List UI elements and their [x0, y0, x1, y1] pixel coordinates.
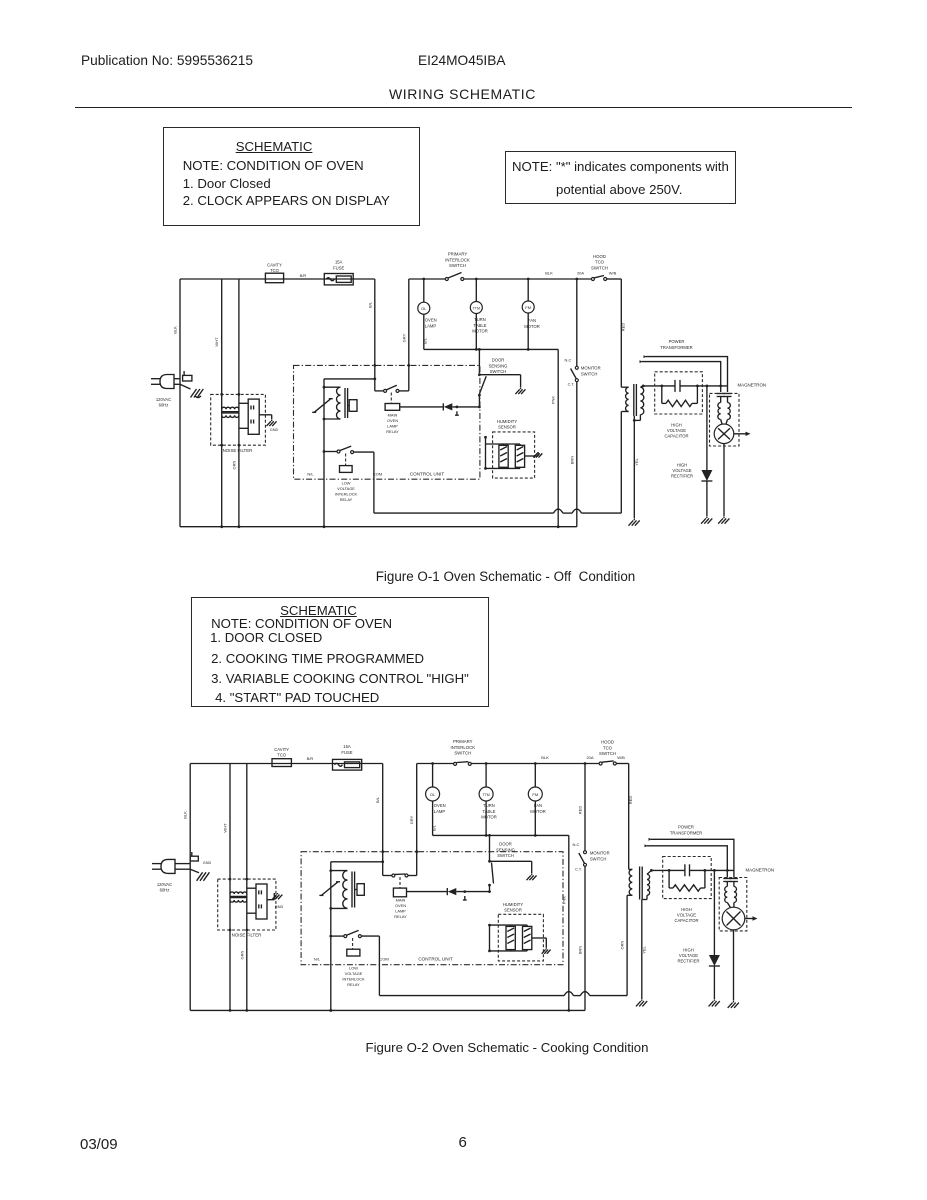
note box 2: components above 250V: [505, 151, 736, 204]
svg-text:TTM: TTM: [482, 793, 489, 797]
svg-text:CAVITY: CAVITY: [274, 747, 289, 752]
svg-text:HIGH: HIGH: [681, 907, 691, 912]
wire door switch down to diode node: [489, 885, 491, 892]
bottom return run upper: [379, 995, 564, 997]
ground: HV transformer chassis: [641, 999, 643, 1001]
svg-text:FM: FM: [532, 792, 538, 797]
svg-text:RED: RED: [578, 806, 583, 815]
oven lamp branch: [432, 764, 434, 788]
power cord plug 120VAC: [161, 859, 175, 873]
wire: top run between primary interlock switch and hood switch: [464, 278, 592, 280]
svg-text:VOLTAGE: VOLTAGE: [677, 913, 696, 918]
HV bus from secondary to magnetron: [651, 869, 685, 871]
interlock relay coil box: [345, 454, 347, 466]
svg-text:OVEN: OVEN: [434, 803, 446, 808]
filament winding lead lower: [640, 360, 644, 363]
wire: D1 to door switch node: [456, 891, 489, 893]
humidity sensor feed wire: [489, 925, 491, 951]
svg-text:BLK: BLK: [183, 811, 188, 819]
wire: primary return to bottom run: [626, 895, 628, 995]
svg-text:RELAY: RELAY: [386, 429, 399, 434]
magnetron filter capacitors: [723, 878, 731, 880]
svg-text:CAVITY: CAVITY: [267, 263, 282, 268]
svg-text:20A: 20A: [586, 755, 593, 760]
svg-text:GRY: GRY: [409, 815, 414, 824]
noise filter box (dashed): [218, 879, 276, 930]
svg-text:DOOR: DOOR: [492, 358, 505, 363]
wire: vertical V4 from fuse run down to lamp relay contact: [374, 279, 376, 391]
turntable motor TTM: [479, 787, 493, 801]
wire FM to bus: [527, 313, 529, 349]
svg-text:INTERLOCK: INTERLOCK: [342, 977, 365, 982]
svg-text:OVEN: OVEN: [395, 903, 406, 908]
ground: power cord: [190, 869, 199, 873]
motor return bus: [433, 834, 569, 836]
wire: AC line top run L1 to relay corner: [180, 278, 375, 280]
svg-text:GRY: GRY: [401, 333, 406, 342]
wire: top run from hood switch to right corner: [607, 278, 622, 280]
svg-text:BRN: BRN: [578, 946, 583, 955]
svg-text:20A: 20A: [577, 271, 584, 276]
svg-text:TCO: TCO: [277, 753, 287, 758]
door sensing switch branch from bus: [478, 349, 480, 373]
svg-text:RELAY: RELAY: [394, 914, 407, 919]
svg-text:SWITCH: SWITCH: [599, 751, 616, 756]
svg-text:GND: GND: [203, 861, 212, 865]
svg-text:YEL: YEL: [641, 945, 646, 953]
cavity TCO: [272, 759, 291, 767]
svg-text:N/L: N/L: [314, 956, 321, 961]
svg-text:C.T.: C.T.: [568, 383, 575, 387]
footer page number: [459, 1134, 467, 1151]
magnetron shield box (dashed): [719, 878, 747, 931]
svg-text:PNK: PNK: [551, 396, 556, 405]
svg-text:TRANSFORMER: TRANSFORMER: [670, 831, 702, 836]
ground: HV transformer chassis: [633, 519, 635, 521]
svg-text:MAIN: MAIN: [388, 413, 398, 418]
svg-text:15A: 15A: [335, 260, 343, 265]
wire: magnetron cathode to ground: [723, 444, 725, 517]
note box 3: schematic condition of oven (cooking): [191, 597, 489, 707]
svg-text:SWITCH: SWITCH: [591, 265, 608, 270]
svg-text:RECTIFIER: RECTIFIER: [677, 959, 699, 964]
svg-text:CONTROL UNIT: CONTROL UNIT: [418, 956, 452, 961]
svg-text:15A: 15A: [343, 744, 351, 749]
svg-text:BLK: BLK: [173, 326, 178, 334]
svg-text:TCO: TCO: [603, 745, 613, 750]
svg-text:OVEN: OVEN: [425, 318, 437, 323]
wire: interlock relay to bottom run: [373, 452, 375, 513]
wire: core rail to chassis: [641, 900, 643, 1000]
header model number: [418, 53, 506, 68]
svg-text:TCO: TCO: [595, 260, 605, 265]
relay coil K1 actuator stroke: [314, 399, 331, 413]
svg-text:120VAC: 120VAC: [156, 397, 171, 402]
svg-text:MONITOR: MONITOR: [590, 851, 610, 856]
ground: noise filter: [271, 420, 273, 421]
magnetron filter chokes: [720, 397, 722, 403]
svg-text:HOOD: HOOD: [601, 740, 614, 745]
HV bleeder resistor loop: [661, 386, 663, 404]
interlock relay contact (open): [331, 935, 344, 937]
wire: interlock relay to bottom run: [378, 936, 380, 996]
wire: V5 down to main relay contact: [416, 764, 418, 876]
wire: top run after interlock switch: [471, 763, 599, 765]
svg-text:HUMIDITY: HUMIDITY: [503, 902, 523, 907]
door sensing switch (open): [478, 373, 481, 376]
wire: vertical V2 through noise filter: [221, 279, 223, 527]
magnetron shield box (dashed): [710, 393, 740, 446]
HV rectifier branch: [713, 870, 715, 955]
page title: [0, 86, 925, 102]
relay K1 core: [344, 388, 346, 418]
svg-text:GND: GND: [275, 905, 284, 909]
svg-text:OL: OL: [430, 792, 436, 797]
svg-text:HIGH: HIGH: [677, 463, 687, 468]
svg-text:TABLE: TABLE: [483, 809, 496, 814]
power cord plug 120VAC: [160, 375, 174, 389]
interlock relay contact (open): [324, 451, 337, 453]
filament winding lead upper: [644, 355, 648, 358]
wire from door switch to earth: [479, 374, 520, 376]
noise filter choke windings: [222, 407, 239, 409]
humidity sensor box (dashed): [493, 432, 535, 478]
wire: door switch to earth: [490, 860, 532, 862]
humidity sensor box (dashed): [498, 914, 543, 961]
title rule: [75, 107, 852, 108]
svg-text:TCO: TCO: [270, 268, 280, 273]
svg-text:BLK: BLK: [541, 755, 549, 760]
svg-text:INTERLOCK: INTERLOCK: [335, 492, 358, 497]
note box 1: schematic condition of oven (off): [163, 127, 421, 226]
noise filter choke windings: [230, 892, 247, 894]
ground: power cord green wire: [180, 384, 191, 389]
svg-text:FUSE: FUSE: [341, 750, 352, 755]
svg-text:CONTROL UNIT: CONTROL UNIT: [410, 471, 444, 476]
HV transformer core: [633, 384, 635, 416]
svg-text:FUSE: FUSE: [333, 266, 344, 271]
svg-text:SENSOR: SENSOR: [504, 908, 522, 913]
hood TCO switch: [591, 278, 594, 281]
humidity sensor ground lead: [532, 937, 547, 939]
svg-text:60Hz: 60Hz: [159, 402, 169, 407]
cavity TCO: [265, 273, 283, 283]
noise filter earth lead: [267, 899, 274, 901]
relay coil K1 winding: [324, 386, 341, 388]
noise filter capacitor network: [248, 399, 259, 434]
wire: vertical V3 through noise filter: [238, 279, 240, 527]
svg-text:120VAC: 120VAC: [157, 882, 172, 887]
magnetron V1 tube: [722, 907, 745, 930]
ground: noise filter: [277, 893, 279, 894]
wire: D1 to door switch node: [452, 406, 479, 408]
oven lamp OL: [418, 302, 430, 314]
svg-text:B/R: B/R: [300, 273, 307, 278]
svg-text:WHT: WHT: [223, 823, 228, 833]
svg-text:TTM: TTM: [473, 306, 480, 310]
turntable motor TTM branch wire: [475, 279, 477, 302]
magnetron antenna arrow: [745, 918, 753, 920]
svg-text:TURN: TURN: [483, 803, 495, 808]
svg-text:SWITCH: SWITCH: [454, 751, 471, 756]
svg-text:RED: RED: [628, 796, 633, 805]
humidity sensor ground lead: [525, 455, 538, 457]
svg-text:W/B: W/B: [609, 271, 617, 276]
svg-text:MONITOR: MONITOR: [581, 366, 601, 371]
svg-text:LAMP: LAMP: [434, 809, 446, 814]
wire: AC line top run to relay corner: [190, 763, 383, 765]
node junction dots on top wire: [422, 278, 425, 281]
wire: magnetron cathode to ground: [733, 930, 735, 1001]
wire: V3 through noise filter: [246, 764, 248, 1011]
svg-text:SENSOR: SENSOR: [498, 425, 516, 430]
relay coil K1 actuator stroke: [321, 882, 338, 896]
wire: corner down to HV transformer primary: [628, 764, 630, 870]
fan motor FM: [522, 301, 534, 313]
svg-text:MOTOR: MOTOR: [524, 324, 540, 329]
secondary cold end to core rail: [646, 895, 648, 899]
svg-text:COM: COM: [379, 956, 388, 961]
filament winding lead lower: [645, 844, 649, 847]
svg-text:GND: GND: [270, 428, 279, 432]
diode D2 HV rectifier: [701, 470, 712, 481]
diode D1: [446, 888, 448, 895]
wire: top right corner down to HV transformer primary: [620, 279, 622, 387]
svg-text:PRIMARY: PRIMARY: [453, 739, 473, 744]
ground: magnetron: [723, 517, 725, 519]
door sensing switch branch: [489, 835, 491, 860]
ground: door sensing switch: [520, 388, 522, 389]
monitor switch vertical: [584, 764, 586, 852]
bottom neutral run: [180, 526, 577, 528]
oven lamp OL branch wire: [423, 279, 425, 302]
diode D1: [442, 403, 444, 410]
fuse F1 15A: [324, 274, 353, 285]
cord terminal: [183, 375, 192, 381]
HV rectifier branch: [706, 386, 708, 470]
svg-text:SWITCH: SWITCH: [581, 371, 598, 376]
wire: door switch to control/diode node: [478, 395, 480, 407]
fuse F1 15A: [333, 759, 362, 770]
fan motor FM: [528, 787, 542, 801]
svg-text:OVEN: OVEN: [387, 418, 398, 423]
svg-text:BRN: BRN: [569, 456, 574, 465]
svg-text:INTERLOCK: INTERLOCK: [445, 257, 470, 262]
relay coil left rail: [330, 862, 332, 1011]
svg-text:NOISE FILTER: NOISE FILTER: [223, 448, 253, 453]
oven lamp OL: [426, 787, 440, 801]
svg-text:MOTOR: MOTOR: [481, 815, 497, 820]
svg-text:TRANSFORMER: TRANSFORMER: [660, 345, 692, 350]
noise filter capacitor network: [256, 884, 267, 919]
fan motor branch: [534, 764, 536, 788]
svg-text:VOLTAGE: VOLTAGE: [345, 971, 363, 976]
monitor switch vertical wire: [576, 279, 578, 367]
humidity sensor elements: [490, 924, 528, 926]
HV transformer T1 primary: [621, 386, 628, 388]
humidity sensor feed wire: [485, 437, 487, 468]
header publication number: [81, 53, 253, 68]
svg-text:LAMP: LAMP: [425, 323, 437, 328]
wire: bus end vertical down to neutral return: [557, 349, 559, 526]
wire: core/secondary rail to chassis: [633, 416, 635, 518]
wire: V2 through noise filter: [229, 764, 231, 1011]
svg-text:BLK: BLK: [545, 271, 553, 276]
monitor switch lower wire to bottom line: [576, 382, 578, 527]
svg-text:60Hz: 60Hz: [160, 888, 170, 893]
svg-text:VOLTAGE: VOLTAGE: [667, 428, 686, 433]
relay coil left rail: [323, 379, 325, 527]
svg-text:MOTOR: MOTOR: [530, 809, 546, 814]
diode D2 HV rectifier: [709, 955, 720, 966]
wire: V4 to relay coil feed: [331, 861, 383, 863]
svg-text:DOOR: DOOR: [499, 842, 512, 847]
secondary cold end to core ground rail: [639, 415, 641, 421]
relay K1 core: [351, 872, 353, 908]
svg-text:ORN: ORN: [620, 940, 625, 949]
svg-text:MOTOR: MOTOR: [472, 329, 488, 334]
bottom neutral run: [190, 1009, 585, 1011]
HV transformer secondary: [640, 387, 643, 415]
wire: top run from relay riser to interlock switch: [417, 763, 454, 765]
svg-text:INTERLOCK: INTERLOCK: [451, 745, 476, 750]
svg-text:MAGNETRON: MAGNETRON: [746, 868, 775, 873]
footer date: [80, 1136, 118, 1153]
svg-text:CAPACITOR: CAPACITOR: [664, 434, 688, 439]
svg-text:VOLTAGE: VOLTAGE: [337, 486, 355, 491]
HV transformer secondary: [647, 874, 650, 895]
oven lamp relay contact (open): [375, 390, 384, 392]
svg-text:PNK: PNK: [561, 896, 566, 905]
ground: HV rectifier: [706, 517, 708, 519]
svg-text:N.C: N.C: [565, 358, 572, 363]
svg-text:LOW: LOW: [349, 966, 358, 971]
wire: V1 line side: [189, 764, 191, 1011]
HV capacitor C1 plates: [684, 864, 686, 876]
svg-text:SWITCH: SWITCH: [497, 853, 514, 858]
svg-text:TABLE: TABLE: [474, 323, 487, 328]
svg-text:FAN: FAN: [528, 318, 536, 323]
svg-text:POWER: POWER: [669, 339, 685, 344]
svg-text:N/L: N/L: [307, 471, 314, 476]
svg-text:VOLTAGE: VOLTAGE: [679, 953, 698, 958]
wire: relay box to rectifier: [407, 891, 447, 893]
svg-text:NOISE FILTER: NOISE FILTER: [232, 932, 262, 937]
relay K1 capacitor box: [347, 405, 349, 407]
svg-text:RELAY: RELAY: [340, 497, 353, 502]
noise filter box (dashed): [211, 394, 266, 445]
figure O-2 caption: [0, 1040, 927, 1055]
svg-text:POWER: POWER: [678, 825, 694, 830]
noise filter earth lead: [259, 414, 272, 416]
svg-text:SWITCH: SWITCH: [449, 263, 466, 268]
svg-text:GRN: GRN: [239, 950, 244, 959]
wire: relay to rectifier D1: [400, 406, 443, 408]
wire: primary return to bottom run: [620, 412, 622, 514]
svg-text:N.C: N.C: [573, 842, 580, 847]
wire: motor return bus: [424, 348, 558, 350]
svg-text:HOOD: HOOD: [593, 254, 606, 259]
HV transformer T1 primary: [629, 868, 633, 870]
fan motor FM branch wire: [527, 279, 529, 301]
svg-text:RELAY: RELAY: [347, 982, 360, 987]
HV bleeder resistor loop: [668, 870, 670, 888]
svg-text:W/B: W/B: [617, 755, 625, 760]
control unit board outline (dash-dot): [301, 852, 563, 965]
junction dots top run: [431, 762, 434, 765]
svg-text:PRIMARY: PRIMARY: [448, 252, 468, 257]
ground: door sensing switch: [531, 874, 533, 875]
svg-text:MAIN: MAIN: [396, 898, 406, 903]
HV bus from secondary to magnetron: [643, 385, 675, 387]
ground: magnetron: [733, 1001, 735, 1003]
HV transformer core: [639, 867, 641, 900]
control unit board outline (dash-dot): [294, 365, 480, 479]
ground: HV rectifier: [713, 999, 715, 1001]
magnetron filter chokes: [726, 882, 728, 887]
wire: vertical V5 from top run down to lamp relay contact: [408, 279, 410, 391]
interlock relay coil box: [352, 938, 354, 949]
HV capacitor box (dashed): [663, 857, 712, 899]
magnetron filter capacitors: [717, 393, 725, 395]
relay coil K1 winding: [331, 870, 348, 872]
svg-text:RED: RED: [621, 323, 626, 332]
primary interlock switch (closed): [454, 762, 457, 765]
filament winding lead upper: [649, 838, 653, 841]
svg-text:RECTIFIER: RECTIFIER: [671, 474, 693, 479]
svg-text:FM: FM: [525, 305, 531, 310]
humidity sensor elements: [486, 443, 521, 445]
main relay contact (closed): [383, 875, 392, 877]
bus end vertical to neutral: [568, 835, 570, 1010]
svg-text:B/L: B/L: [375, 796, 380, 803]
oven lamp relay coil box: [390, 393, 392, 404]
wire: top run from hood switch to corner: [616, 763, 628, 765]
svg-text:SWITCH: SWITCH: [590, 856, 607, 861]
turntable motor branch: [485, 764, 487, 788]
figure O-1 caption: [0, 569, 927, 584]
svg-text:SENSING: SENSING: [489, 363, 508, 368]
svg-text:CAPACITOR: CAPACITOR: [674, 918, 698, 923]
svg-text:SWITCH: SWITCH: [490, 369, 507, 374]
svg-text:HUMIDITY: HUMIDITY: [497, 419, 517, 424]
svg-text:LAMP: LAMP: [387, 424, 398, 429]
wire: top run from relay riser to interlock switch: [409, 278, 446, 280]
bottom return run upper (to HV transformer): [374, 512, 554, 514]
wire OL to bus: [423, 314, 425, 349]
primary interlock switch (open): [445, 278, 448, 281]
magnetron antenna arrow: [734, 433, 746, 435]
wire: V4 down to main relay contact: [382, 764, 384, 876]
hood TCO switch: [599, 762, 602, 765]
door sensing switch (closed): [488, 860, 491, 863]
magnetron V1 tube: [714, 424, 734, 444]
svg-text:VOLTAGE: VOLTAGE: [672, 468, 691, 473]
svg-text:B/L: B/L: [367, 301, 372, 308]
svg-text:B/R: B/R: [307, 756, 314, 761]
turntable motor TTM: [470, 302, 482, 314]
svg-text:WHT: WHT: [214, 337, 219, 347]
HV capacitor box (dashed): [655, 372, 703, 414]
svg-text:LOW: LOW: [342, 481, 351, 486]
svg-text:GRN: GRN: [232, 460, 237, 469]
polarity tick: [456, 411, 458, 415]
wire TTM to bus: [475, 314, 477, 350]
svg-text:OL: OL: [421, 306, 427, 311]
svg-text:LAMP: LAMP: [395, 909, 406, 914]
svg-text:HIGH: HIGH: [671, 423, 681, 428]
svg-text:HIGH: HIGH: [683, 948, 693, 953]
